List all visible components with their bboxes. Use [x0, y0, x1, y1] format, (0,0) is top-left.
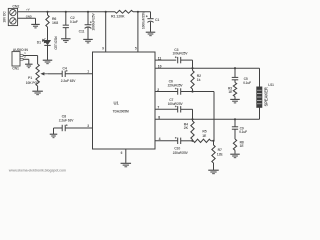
- wire pin 10 to speaker: [155, 64, 260, 68]
- svg-text:U1: U1: [114, 100, 120, 105]
- capacitor C2 0.1uF: [63, 12, 78, 39]
- wire R6-D1: [47, 27, 49, 40]
- connector CN2 18V DC: [3, 4, 20, 25]
- node R2/C6: [191, 90, 193, 92]
- svg-text:0.1uF: 0.1uF: [243, 81, 251, 85]
- wire pin 11: [155, 56, 176, 60]
- ground U1: [121, 162, 132, 164]
- wire pin 8 to speaker return: [155, 116, 260, 120]
- resistor R2 1k: [191, 68, 201, 91]
- capacitor C9 0.1uF: [232, 119, 247, 134]
- node R1-pin5: [137, 11, 139, 13]
- capacitor C11 1000uF/25V: [79, 12, 96, 39]
- svg-text:11: 11: [158, 56, 162, 60]
- wire pin 7: [155, 106, 178, 110]
- wire C10 to node: [181, 140, 194, 142]
- ground R3: [230, 98, 240, 100]
- svg-text:5: 5: [135, 46, 137, 50]
- wire node to feedback column: [193, 91, 215, 93]
- svg-text:0.1uF: 0.1uF: [239, 130, 247, 134]
- svg-text:GND: GND: [26, 14, 32, 18]
- LED D1 RED LED: [37, 36, 58, 50]
- wire CN1 to pot: [23, 51, 37, 64]
- ground D1: [43, 59, 53, 61]
- svg-text:12E: 12E: [217, 153, 224, 157]
- svg-text:2K: 2K: [184, 126, 189, 130]
- svg-text:7: 7: [157, 106, 159, 110]
- wire gnd to C8: [53, 128, 55, 134]
- wire C3 to node: [181, 59, 193, 61]
- svg-text:R5: R5: [202, 130, 206, 134]
- svg-text:CN1: CN1: [12, 66, 19, 70]
- svg-text:SPEAKER: SPEAKER: [264, 87, 269, 106]
- ground P1: [32, 90, 43, 92]
- resistor R1 120K: [111, 10, 133, 18]
- resistor R7 12E: [212, 141, 224, 170]
- svg-text:0.1uF: 0.1uF: [70, 20, 78, 24]
- wire speaker bottom: [259, 108, 261, 120]
- wire pin 4: [155, 137, 178, 141]
- wire C8 to pin 3: [65, 124, 92, 128]
- svg-text:www.skema-elektronik.blogspot.: www.skema-elektronik.blogspot.com: [8, 168, 66, 172]
- wire +V rail: [18, 8, 115, 12]
- wire C4 to pin 1: [65, 70, 92, 74]
- connector CN1 AUDIO IN: [12, 48, 28, 70]
- svg-text:1000uF/25V: 1000uF/25V: [92, 13, 96, 31]
- svg-text:LS1: LS1: [268, 83, 274, 87]
- wire to speaker top: [259, 68, 261, 87]
- svg-text:TDA2005M: TDA2005M: [113, 109, 129, 113]
- svg-text:2: 2: [157, 88, 159, 92]
- svg-text:C4: C4: [62, 66, 66, 70]
- node C5 top: [234, 67, 236, 69]
- node rail-C11: [87, 11, 89, 13]
- svg-text:18V DC: 18V DC: [3, 11, 7, 23]
- svg-text:CN2: CN2: [12, 4, 19, 8]
- svg-text:220uF/25V: 220uF/25V: [173, 151, 189, 155]
- capacitor C10 220uF/25V: [173, 137, 189, 155]
- wire R5 to node: [211, 140, 214, 142]
- svg-text:3: 3: [87, 124, 89, 128]
- svg-text:1K8: 1K8: [52, 21, 58, 25]
- resistor R8 1E: [233, 129, 244, 154]
- ground C1: [146, 31, 156, 33]
- resistor R3 1E: [228, 80, 237, 99]
- node rail-C2: [65, 11, 67, 13]
- wire wiper to C4: [48, 73, 62, 75]
- capacitor C1 1000uF/25V: [142, 11, 160, 32]
- svg-text:9: 9: [102, 46, 104, 50]
- svg-text:C10: C10: [174, 146, 180, 150]
- capacitor C4 2.2uF 63V: [61, 66, 76, 83]
- ground C8: [50, 133, 58, 135]
- speaker LS1 connector: [257, 83, 275, 108]
- node R5/R7: [212, 140, 214, 142]
- svg-text:AUDIO IN: AUDIO IN: [13, 48, 29, 52]
- wire rail to IC pin 9: [102, 12, 106, 52]
- node rail-R6: [46, 11, 48, 13]
- capacitor C3 100uF/25V: [173, 48, 189, 64]
- svg-text:100uF/25V: 100uF/25V: [173, 52, 189, 56]
- svg-text:+V: +V: [26, 8, 30, 12]
- svg-text:8: 8: [158, 116, 160, 120]
- wire CN1 shield: [23, 58, 29, 60]
- wire IC bottom gnd: [121, 149, 126, 163]
- capacitor C5 0.1uF: [232, 68, 251, 85]
- wire pin 2: [155, 88, 178, 92]
- svg-text:2.2uF 63V: 2.2uF 63V: [61, 79, 76, 83]
- capacitor C6 220uF/25V: [168, 80, 184, 95]
- svg-text:10K POT: 10K POT: [26, 81, 39, 85]
- wire R1 to C1: [133, 11, 151, 13]
- svg-text:2.2uF 63V: 2.2uF 63V: [59, 119, 74, 123]
- svg-text:1k: 1k: [197, 78, 201, 82]
- potentiometer P1 10K POT: [26, 64, 48, 86]
- wire C6 to node: [181, 91, 193, 93]
- node C3/R2: [191, 67, 193, 69]
- op-amp U1 TDA2005M: [93, 52, 156, 149]
- svg-text:220uF/25V: 220uF/25V: [168, 84, 184, 88]
- svg-text:R7: R7: [218, 148, 222, 152]
- ground CN2: [31, 23, 40, 25]
- wire C7 to node: [181, 108, 193, 110]
- svg-text:100uF/25V: 100uF/25V: [168, 102, 184, 106]
- svg-text:1: 1: [87, 70, 89, 74]
- svg-text:C11: C11: [79, 29, 85, 33]
- resistor R5 1E: [193, 130, 211, 143]
- ground R7: [208, 169, 219, 171]
- ground CN1: [25, 63, 33, 65]
- svg-text:D1: D1: [37, 40, 41, 44]
- wire CN2 gnd: [18, 14, 36, 24]
- wire to IC pin 5: [135, 12, 138, 52]
- resistor R6 1K8: [46, 12, 58, 27]
- resistor R4 2K: [184, 119, 194, 141]
- svg-text:C1: C1: [155, 18, 159, 22]
- node R4 bottom: [191, 140, 193, 142]
- capacitor C8 2.2uF 63V: [59, 114, 74, 131]
- svg-text:1000uF/25V: 1000uF/25V: [142, 11, 146, 29]
- svg-text:P1: P1: [28, 76, 32, 80]
- node C9 top: [234, 118, 236, 120]
- wire pot-gnd: [37, 86, 39, 91]
- svg-text:4: 4: [159, 137, 161, 141]
- capacitor C7 100uF/25V: [168, 98, 184, 113]
- ground C11: [83, 38, 93, 40]
- svg-text:R1 120K: R1 120K: [111, 14, 125, 18]
- wire D1-gnd: [47, 45, 49, 60]
- node pin8/C7/R4: [191, 118, 193, 120]
- svg-text:RED LED: RED LED: [54, 36, 58, 50]
- node rail-pin9: [105, 11, 107, 13]
- ground C2: [61, 38, 71, 40]
- svg-text:10: 10: [158, 64, 162, 68]
- ground R8: [230, 153, 240, 155]
